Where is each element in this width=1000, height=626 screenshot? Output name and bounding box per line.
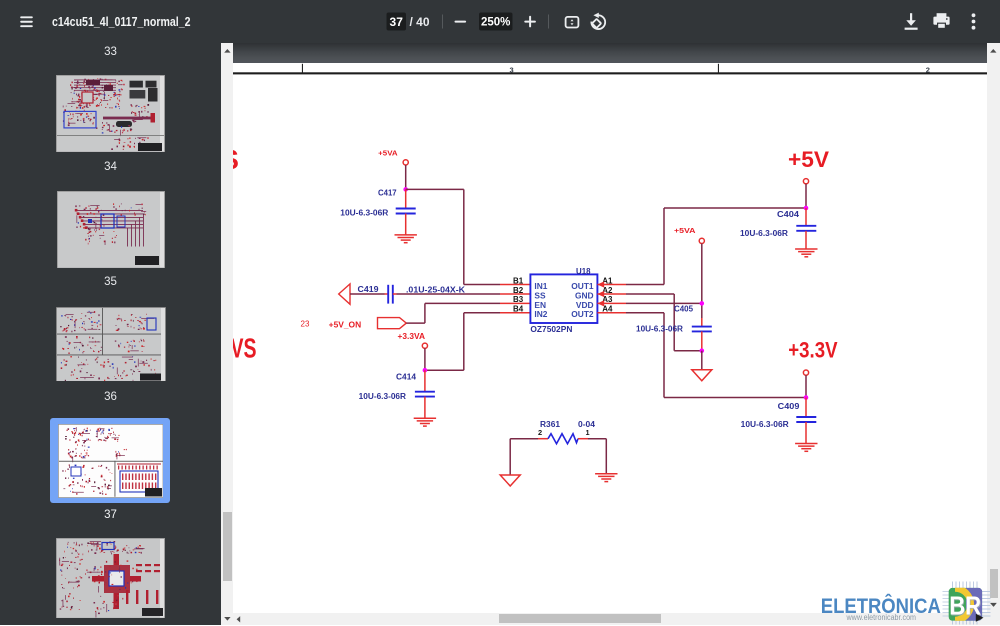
svg-text:B4: B4: [513, 305, 524, 314]
svg-text:+3.3V: +3.3V: [788, 337, 837, 362]
svg-text:.01U-25-04X-K: .01U-25-04X-K: [406, 286, 465, 295]
svg-text:10U-6.3-06R: 10U-6.3-06R: [636, 325, 683, 334]
svg-text:2: 2: [538, 428, 542, 437]
svg-text:250%: 250%: [481, 17, 510, 29]
svg-text:C417: C417: [378, 189, 397, 198]
svg-text:C404: C404: [777, 210, 800, 219]
svg-text:U18: U18: [576, 266, 591, 276]
svg-text:OZ7502PN: OZ7502PN: [530, 324, 572, 334]
svg-text:C409: C409: [778, 402, 800, 411]
svg-text:3: 3: [510, 65, 514, 74]
svg-text:+5V_ON: +5V_ON: [329, 320, 362, 329]
svg-text:VS: VS: [233, 333, 257, 364]
svg-text:+5V: +5V: [788, 147, 829, 172]
svg-text:+5VA: +5VA: [674, 226, 696, 235]
svg-text:C405: C405: [674, 305, 694, 314]
svg-text:c14cu51_4l_0117_normal_2: c14cu51_4l_0117_normal_2: [52, 14, 191, 29]
svg-text:+3.3VA: +3.3VA: [398, 332, 426, 341]
svg-text:1: 1: [586, 428, 590, 437]
svg-text:B1: B1: [513, 276, 524, 285]
svg-text:B3: B3: [513, 295, 524, 304]
svg-text:10U-6.3-06R: 10U-6.3-06R: [340, 209, 388, 218]
svg-text:C414: C414: [396, 372, 417, 381]
svg-text:10U-6.3-06R: 10U-6.3-06R: [359, 392, 407, 401]
svg-text:10U-6.3-06R: 10U-6.3-06R: [741, 420, 789, 429]
svg-text:OUT2: OUT2: [571, 309, 594, 319]
svg-text:2: 2: [926, 65, 930, 74]
svg-text:/ 40: / 40: [410, 15, 430, 29]
svg-text:R361: R361: [540, 420, 561, 429]
svg-text:+5VA: +5VA: [378, 149, 397, 158]
svg-text:S: S: [233, 144, 239, 175]
svg-text:23: 23: [301, 320, 310, 329]
svg-text:C419: C419: [358, 285, 380, 294]
svg-text:37: 37: [390, 15, 404, 29]
svg-text:B2: B2: [513, 286, 524, 295]
svg-text:www.eletronicabr.com: www.eletronicabr.com: [846, 613, 916, 622]
svg-text:10U-6.3-06R: 10U-6.3-06R: [740, 229, 788, 238]
svg-text:IN2: IN2: [534, 309, 547, 319]
